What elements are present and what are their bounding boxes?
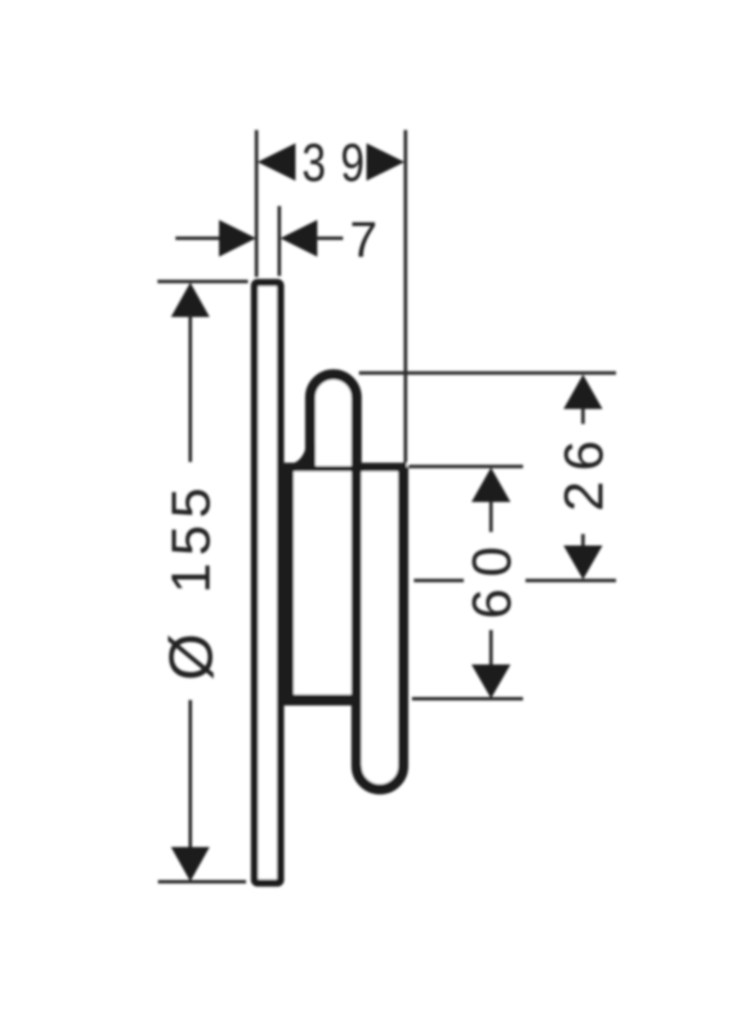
svg-text:3: 3 xyxy=(302,134,326,194)
dimension 60: bottom reference line xyxy=(412,697,523,701)
dimension 7: left arrow pointing right xyxy=(219,220,256,257)
dimension 26: upper tail xyxy=(581,408,585,424)
wall plate xyxy=(255,283,281,884)
dimension 60: top arrow xyxy=(472,468,511,503)
dimension 60: top reference line xyxy=(408,465,523,469)
dimension 7: right arrow pointing left xyxy=(280,220,317,257)
dimension 60: lower tail xyxy=(489,630,493,666)
svg-text:60: 60 xyxy=(460,535,522,619)
dimension 60: bottom arrow xyxy=(472,665,511,699)
dimension 155: bottom reference line xyxy=(158,880,246,884)
dimension 155: upper tail line xyxy=(189,315,193,462)
handle lever up: white fill xyxy=(310,374,356,466)
middle shared edge line xyxy=(351,396,361,766)
valve body top edge xyxy=(284,463,407,472)
dimension 39: left arrow xyxy=(258,143,296,181)
svg-text:9: 9 xyxy=(340,134,364,194)
dimension 155: bottom arrow xyxy=(171,847,210,882)
valve body left edge xyxy=(283,463,293,705)
dimension 7: tail line xyxy=(316,237,343,241)
dimension 155: lower tail line xyxy=(189,700,193,848)
handle lever down: white fill xyxy=(361,472,398,789)
dimension 26: bottom arrow xyxy=(564,546,603,580)
dimension 26: lower tail xyxy=(581,534,585,546)
handle lever up: outline xyxy=(310,374,356,458)
svg-text:26: 26 xyxy=(552,430,614,511)
dimension 155: top arrow xyxy=(171,283,210,318)
lever foot fillet xyxy=(288,444,316,468)
handle lever down: right edge and bottom arc xyxy=(357,467,404,789)
svg-text:Ø: Ø xyxy=(157,633,225,680)
dimension 7: extension line xyxy=(278,206,282,276)
dimension 60: upper tail xyxy=(489,501,493,532)
dimension 155: top reference line xyxy=(158,280,249,284)
dimension 39: left extension line xyxy=(255,130,259,277)
dimension 26: top reference line xyxy=(359,371,616,375)
dimension 26: bottom reference line left piece xyxy=(414,579,464,583)
dimension 39: right extension line xyxy=(404,130,408,464)
dimension 7: left leader line xyxy=(176,237,222,241)
svg-text:7: 7 xyxy=(350,212,378,268)
dimension 26: bottom reference line right piece xyxy=(526,579,617,583)
valve body bottom edge xyxy=(284,695,354,706)
dimension 39: right arrow xyxy=(367,143,405,181)
dimension 26: top arrow xyxy=(564,375,603,410)
valve body interior xyxy=(284,463,408,705)
svg-text:155: 155 xyxy=(160,481,222,594)
